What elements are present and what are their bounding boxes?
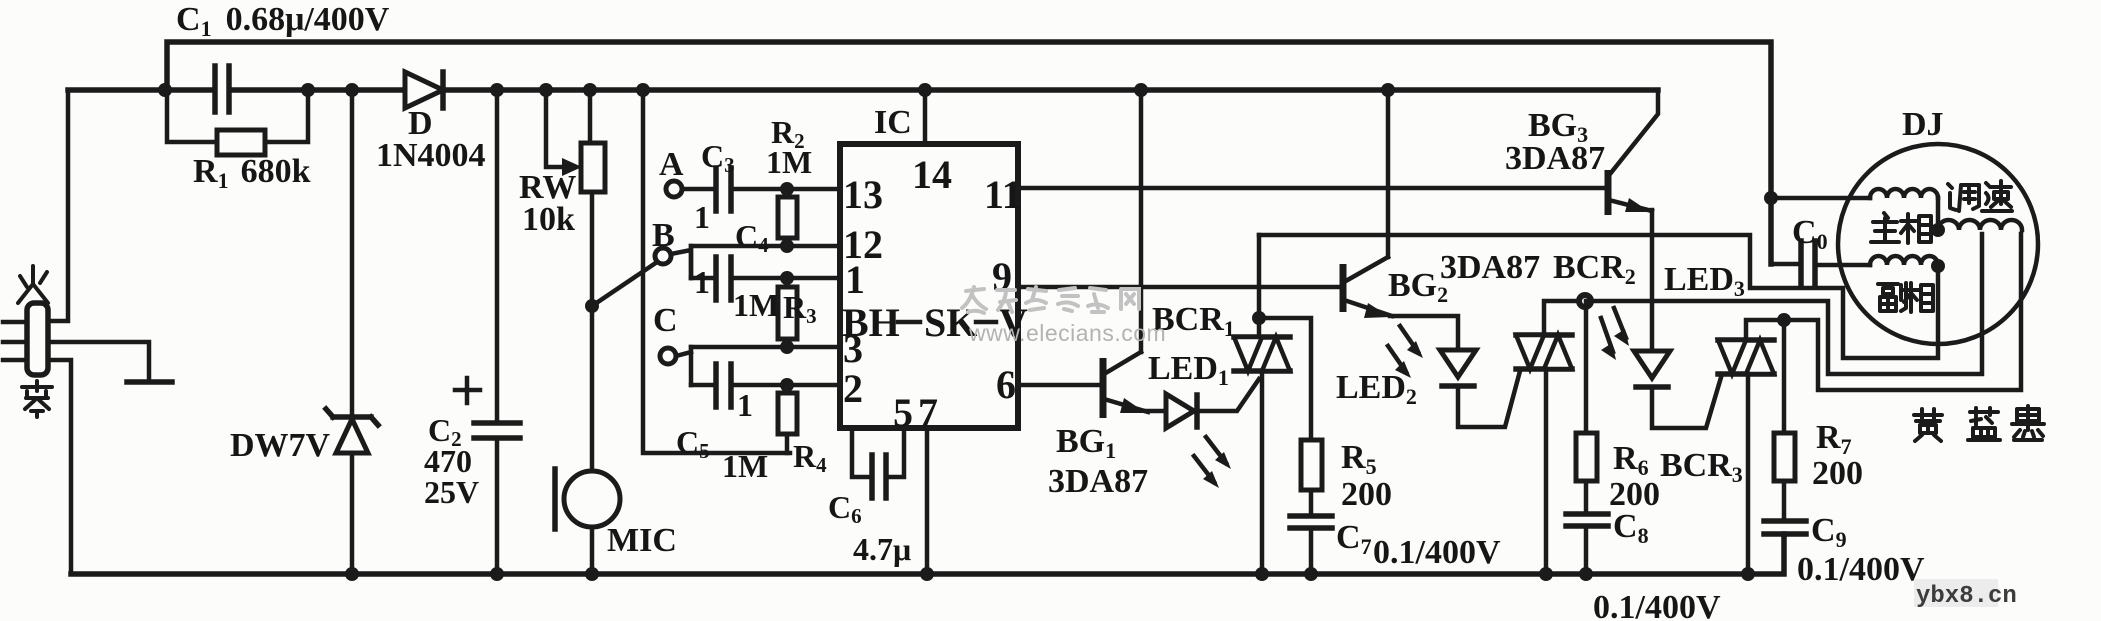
wire: feed to main winding [1771, 196, 1870, 201]
triac BCR2 [1516, 335, 1572, 369]
node: C7 on bottom bus [1304, 567, 1318, 581]
light arrows between BCR2 and LED3 [1601, 308, 1629, 360]
svg-text:0.1/400V: 0.1/400V [1373, 534, 1501, 571]
svg-text:IC: IC [874, 104, 912, 141]
LED LED1 [1166, 394, 1197, 428]
wire: bottom neutral bus [71, 534, 1784, 574]
wire: pin6 line to BG1 base [1018, 383, 1100, 388]
svg-text:www.elecians.com: www.elecians.com [968, 320, 1166, 346]
wire: BCR1 MT2 vertical [1257, 235, 1262, 337]
node: C2 on bottom bus [490, 567, 504, 581]
wire: BCR1 MT1 down to bus [1260, 371, 1265, 574]
diode D 1N4004 [405, 72, 443, 108]
wire: MIC bottom to bus [590, 527, 595, 574]
node: R3 top junction [780, 271, 794, 285]
wire: R6 to C8 [1584, 481, 1589, 514]
node: BG1 collector junction on main bus [1134, 83, 1148, 97]
svg-text:3DA87: 3DA87 [1440, 249, 1540, 286]
transistor BG2 [1343, 257, 1392, 318]
wire: R7 branch vertical [1782, 320, 1787, 433]
svg-text:200: 200 [1341, 476, 1392, 513]
wire: C7 to bus [1309, 528, 1314, 574]
svg-text:ybx8.cn: ybx8.cn [1916, 583, 2017, 610]
wire: DW7V branch vertical [350, 90, 355, 574]
wire: C stub and jog joining pin3 and pin2 lines [676, 352, 691, 356]
node: RW/B/MIC junction [585, 299, 599, 313]
svg-text:1N4004: 1N4004 [376, 137, 486, 174]
resistor R3 body [778, 287, 797, 339]
capacitor C5 plates [713, 364, 719, 407]
svg-text:6: 6 [996, 362, 1016, 407]
capacitor C2 plates [474, 420, 520, 426]
microphone MIC side bar [552, 469, 558, 529]
wire: main live bus y=90 left piece to C1 [68, 87, 213, 93]
label 零 (neutral) [22, 381, 52, 417]
wire: C6 right plate up to IC bottom [890, 428, 904, 477]
wire: BG2 collector vertical [1386, 90, 1391, 257]
wire: R5 branch from BCR1 top junction [1259, 318, 1311, 440]
wire: pin13 line from A through C3 to IC [682, 187, 714, 192]
svg-text:LED1: LED1 [1148, 350, 1229, 390]
node: R4 top junction [780, 378, 794, 392]
svg-text:0.1/400V: 0.1/400V [1797, 551, 1925, 588]
triac BCR3 [1718, 340, 1774, 374]
light arrows of LED2 [1388, 326, 1423, 378]
node: RW top junction on main bus [583, 83, 597, 97]
capacitor C7 plates [1290, 513, 1332, 519]
wire: BCR3 MT1 down to bus [1746, 374, 1751, 574]
zener diode DW7V [326, 409, 378, 453]
inductor main winding 主相 [1870, 189, 1938, 198]
svg-text:14: 14 [912, 152, 952, 197]
svg-text:13: 13 [843, 172, 883, 217]
node: RW wiper junction on main bus [539, 83, 553, 97]
node: C2 branch junction on main bus [490, 83, 504, 97]
svg-text:1: 1 [694, 199, 710, 235]
capacitor C4 plates [713, 257, 719, 300]
svg-text:3DA87: 3DA87 [1505, 140, 1605, 177]
triac BCR1 [1234, 337, 1290, 371]
potentiometer RW body [581, 143, 605, 192]
LED LED2 [1440, 350, 1476, 386]
wire: pin9 line to BG2 base [1018, 285, 1341, 290]
capacitor C9 plates [1764, 518, 1806, 524]
earth stub end bar [127, 379, 172, 385]
terminal C [660, 348, 676, 364]
light arrows of LED1 [1194, 437, 1231, 488]
node: junction of C1 branch on main bus [158, 83, 172, 97]
svg-text:25V: 25V [424, 474, 479, 510]
wire: B stub and jog joining pin12 and pin1 lines [671, 250, 691, 278]
svg-text:B: B [652, 217, 675, 254]
svg-text:4.7μ: 4.7μ [853, 531, 911, 567]
svg-text:11: 11 [984, 172, 1022, 217]
terminal A [666, 181, 682, 197]
wire: BG1 emitter to LED1 [1146, 409, 1166, 414]
wire: pin7 stub down to bus [925, 428, 930, 574]
node: R7 tap junction [1777, 313, 1791, 327]
wire: R1 bypass loop right leg [265, 90, 308, 142]
node: BCR2 on bottom bus [1539, 567, 1553, 581]
terminal B [655, 248, 671, 264]
wire: LED1 to BCR1 gate [1199, 379, 1259, 411]
transistor BG3 [1608, 90, 1658, 215]
wire: R7 to C9 [1782, 481, 1787, 521]
wire: speed-tap line from BCR2 top to motor winding tap [1544, 234, 1982, 374]
wire: R5 to C7 [1309, 490, 1314, 516]
microphone MIC body [564, 471, 620, 527]
svg-text:LED2: LED2 [1336, 369, 1417, 409]
plug prong lower (left) [3, 358, 27, 363]
wire: live drop to plug upper prong [48, 90, 68, 321]
wire: main winding to speed winding junction [1936, 198, 1941, 230]
svg-text:A: A [659, 146, 684, 183]
node: R2 top junction [780, 182, 794, 196]
wire: pin1 line through C4 to IC [691, 276, 714, 281]
wire: BG2 emitter to LED2 [1390, 316, 1458, 350]
plug prong upper (left) [3, 320, 27, 325]
wire: pin2 line through C5 to IC [691, 383, 714, 388]
resistor R4 body [778, 393, 797, 434]
wire: R6 branch vertical [1584, 301, 1589, 433]
resistor R6 body [1576, 433, 1597, 481]
wire: pin5 stub to C6 [852, 428, 868, 477]
svg-text:1: 1 [737, 387, 753, 423]
resistor R5 body [1301, 440, 1322, 490]
node: BG2 collector junction on main bus [1381, 83, 1395, 97]
resistor R7 body [1774, 433, 1795, 481]
node: BCR1 on bottom bus [1255, 567, 1269, 581]
wire: top AC bypass from live node to motor, with drop to C0 [167, 42, 1771, 264]
inductor aux winding 副相 [1870, 256, 1938, 265]
capacitor C0 plates [1798, 241, 1804, 284]
wire: earth stub from plug middle prong [48, 342, 149, 382]
wire: main live bus y=90 from C1 to BG3 collector corner [231, 87, 1658, 93]
wire: neutral from plug lower prong down to bottom bus [48, 360, 71, 574]
wire: LED3 to BCR3 gate [1652, 374, 1722, 428]
svg-text:1M: 1M [766, 144, 812, 180]
wire: pin3 line [691, 345, 840, 350]
node: main/speed winding junction [1931, 223, 1945, 237]
svg-text:DJ: DJ [1902, 106, 1944, 143]
watermark ybx8.cn [1914, 579, 1998, 607]
node: R5 tap junction above BCR1 [1252, 311, 1266, 325]
svg-text:1: 1 [845, 257, 865, 302]
svg-text:C: C [653, 302, 678, 339]
wire: LED2 to BCR2 gate [1458, 371, 1520, 427]
svg-text:BCR2: BCR2 [1553, 249, 1636, 289]
node: R6 tap junction [1576, 292, 1594, 310]
node: aux winding output junction [1931, 259, 1945, 273]
capacitor C1 plates [212, 66, 218, 112]
wire: C2 branch vertical upper [495, 90, 500, 421]
node: R2 bottom junction [780, 239, 794, 253]
wire: full-winding line from BCR3 top to motor winding end [1746, 234, 2021, 390]
svg-text:3DA87: 3DA87 [1048, 463, 1148, 500]
wire: pin11 line to BG3 base [1018, 186, 1608, 191]
wire: diagonal from B terminal to RW bottom junction [592, 258, 663, 306]
wire: BG3 emitter down to LED3 [1650, 210, 1655, 351]
polarity + of C2 [455, 378, 480, 403]
node: pin14 junction on main bus [918, 83, 932, 97]
node: DW7V on bottom bus [345, 567, 359, 581]
inductor speed winding 调速 [1938, 220, 2022, 230]
svg-text:1: 1 [694, 264, 710, 300]
wire: pin12 line [691, 244, 840, 249]
resistor R1 body [217, 130, 265, 155]
svg-text:MIC: MIC [607, 522, 677, 559]
plug body [27, 303, 48, 375]
svg-text:0.1/400V: 0.1/400V [1593, 589, 1721, 621]
resistor R2 body [778, 197, 797, 238]
watermark chinese characters [962, 287, 1139, 313]
svg-text:9: 9 [992, 254, 1012, 299]
LED LED3 [1634, 351, 1670, 387]
svg-text:1M: 1M [722, 448, 768, 484]
node: bias chain junction on main bus [636, 83, 650, 97]
svg-text:1M: 1M [733, 287, 779, 323]
label 火 (live) [18, 266, 48, 303]
wire: pin14 stub to main bus [923, 90, 928, 144]
svg-text:R1680k: R1680k [193, 153, 311, 193]
label 黄蓝黑 (yellow blue black) [1914, 406, 2044, 441]
wire: aux-phase return line from BCR1 top around to motor aux winding [1259, 235, 1938, 358]
svg-text:200: 200 [1812, 455, 1863, 492]
node: R3 bottom junction [780, 340, 794, 354]
wire: R4 bottom to bias rail [785, 434, 790, 453]
wire: R1 bypass loop left leg [167, 90, 217, 142]
wire: input network left rail down and across to R4 bottom [643, 90, 790, 453]
node: DW7V branch junction on main bus [345, 83, 359, 97]
capacitor C8 plates [1566, 511, 1608, 517]
label 副相 (aux phase) [1878, 283, 1933, 312]
svg-text:3: 3 [843, 326, 863, 371]
wire: C8 to bus [1584, 526, 1589, 574]
svg-text:2: 2 [843, 366, 863, 411]
wire: BCR2 MT1 down to bus [1544, 369, 1549, 574]
wire: C0 right plate to aux winding [1819, 263, 1870, 268]
wire: RW wiper with arrow [546, 90, 572, 167]
node: R1 loop right junction [301, 83, 315, 97]
IC BH-SK-V box [840, 144, 1018, 428]
transistor BG1 [1103, 352, 1148, 418]
wire: C0 left connection [1771, 262, 1797, 267]
svg-text:LED3: LED3 [1664, 261, 1745, 301]
capacitor C3 plates [713, 168, 719, 211]
svg-text:10k: 10k [522, 201, 575, 238]
wire: C2 branch vertical lower [495, 440, 500, 574]
node: main winding feed junction on C0 drop [1764, 191, 1778, 205]
svg-text:BCR3: BCR3 [1660, 447, 1743, 487]
node: pin7 ground on bus [920, 567, 934, 581]
node: MIC on bottom bus [585, 567, 599, 581]
label 调速 (speed) [1948, 181, 2012, 211]
svg-text:DW7V: DW7V [230, 427, 331, 464]
wire: RW top leg [588, 90, 593, 143]
node: BCR3 on bottom bus [1741, 567, 1755, 581]
motor DJ circle [1838, 144, 2038, 344]
node: C8 on bottom bus [1579, 567, 1593, 581]
wire: RW bottom to junction with B and MIC [590, 192, 595, 470]
label 主相 (main phase) [1871, 213, 1931, 243]
capacitor C6 plates [869, 455, 875, 498]
wire: BG1 collector vertical [1139, 90, 1144, 352]
plug prong middle (left) [3, 340, 27, 345]
